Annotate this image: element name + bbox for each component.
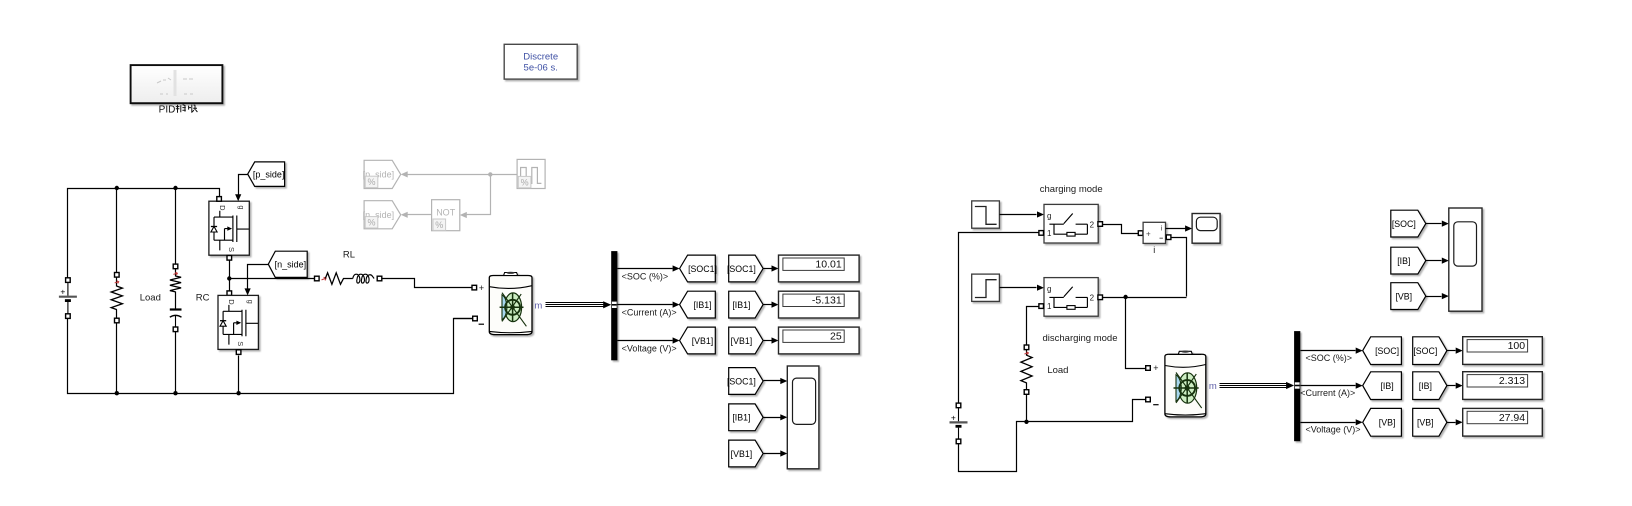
red current mark Load: [115, 281, 119, 284]
port: breaker2 input 1: [1039, 304, 1044, 309]
svg-text:[VB]: [VB]: [1417, 418, 1434, 428]
gray arrowhead into [p_side]: [401, 171, 408, 177]
resistor Load: [111, 286, 122, 310]
svg-text:[SOC]: [SOC]: [1392, 219, 1416, 229]
wire: from [VB] to scope2: [1426, 296, 1442, 298]
label m (battery2 output): [1209, 381, 1217, 392]
breaker block charging mode: [1044, 204, 1098, 243]
signal label &lt;Voltage (V)&gt; (right): [1306, 425, 1361, 435]
svg-text:NOT: NOT: [436, 208, 456, 218]
arrowhead into display: [772, 337, 779, 343]
svg-text:[p_side]: [p_side]: [253, 170, 285, 180]
port: V1 +: [66, 278, 71, 283]
junction ground node: [1024, 420, 1028, 424]
label i: [1153, 245, 1155, 255]
svg-text:D: D: [218, 205, 227, 211]
arrowhead into mosfet2 gate: [245, 288, 251, 295]
junction bottom / Load: [115, 391, 119, 395]
arrowhead into scope: [780, 450, 787, 456]
arrowhead into display (right): [1456, 383, 1463, 389]
red current mark Load2: [1024, 352, 1028, 355]
svg-text:2: 2: [1090, 294, 1095, 303]
port: Load bottom: [115, 318, 120, 323]
svg-text:%: %: [367, 218, 375, 228]
svg-text:27.94: 27.94: [1499, 412, 1525, 424]
subsystem block PID: [131, 65, 223, 103]
svg-text:[VB]: [VB]: [1379, 418, 1396, 428]
wire: step2 to breaker2 gate: [1000, 287, 1037, 289]
port: V1 -: [66, 314, 71, 319]
port: mosfet1 source: [227, 256, 232, 261]
wire: from [IB1] to scope: [764, 417, 781, 419]
arrowhead bus into selector 2: [1286, 382, 1294, 389]
port: battery2 +: [1146, 366, 1151, 371]
svg-text:25: 25: [830, 331, 842, 343]
svg-text:g: g: [1047, 211, 1051, 220]
svg-text:RL: RL: [343, 250, 355, 261]
wire: from [VB1] to display: [764, 340, 772, 342]
wire: from [SOC1] to scope: [764, 380, 781, 382]
svg-text:Load: Load: [140, 293, 161, 304]
wire: bottom rail: [68, 317, 478, 394]
label + (battery2): [1153, 363, 1158, 373]
arrowhead into breaker1 g: [1037, 211, 1044, 217]
label PID模块: [159, 105, 198, 116]
wire: mosfet1 source down to node: [229, 256, 231, 294]
label - (battery2): [1153, 404, 1158, 406]
scope block (right): [1449, 208, 1482, 311]
svg-text:[IB1]: [IB1]: [732, 413, 750, 423]
wire: bus selector2 output 2: [1301, 385, 1356, 387]
bus signal battery2 m to bus selector 2: [1220, 384, 1288, 388]
wire: V2- bottom path to ground node: [959, 422, 1025, 472]
from tag [SOC] (to display): [1413, 337, 1447, 365]
from tag [IB1] (to scope): [729, 404, 763, 431]
svg-text:+: +: [479, 283, 484, 293]
arrowhead bus into selector 1: [603, 301, 611, 308]
svg-text:Load: Load: [1047, 365, 1068, 376]
from tag [IB] (to display): [1413, 372, 1447, 400]
wire: current sensor - down to discharge node: [1171, 238, 1187, 297]
svg-text:100: 100: [1508, 340, 1526, 352]
wire: battery - to bottom rail: [454, 318, 473, 320]
svg-text:+: +: [60, 287, 65, 297]
gray arrowhead into NOT: [460, 212, 467, 218]
port: Load top: [115, 273, 120, 278]
bus signal battery1 m to bus selector: [546, 303, 605, 307]
DC voltage source V1: [59, 282, 77, 313]
DC voltage source V2: [950, 408, 968, 439]
wire: V2+ rail up to breaker1 input: [959, 233, 1039, 404]
gray NOT block (commented out): [432, 200, 460, 231]
battery block B2: [1165, 351, 1206, 417]
svg-text:m: m: [1209, 381, 1217, 392]
label discharging mode: [1043, 333, 1118, 344]
signal label &lt;SOC (%)&gt;: [622, 271, 669, 281]
svg-text:m: m: [534, 301, 542, 312]
svg-text:<Current (A)>: <Current (A)>: [1300, 388, 1355, 398]
wire: RC bottom to rail: [175, 332, 177, 394]
gray junction: [488, 172, 492, 176]
from tag [VB] (to scope2): [1391, 283, 1426, 310]
junction discharge node: [1123, 295, 1127, 299]
arrowhead into mosfet1 gate: [235, 194, 241, 201]
display 27.94: [1463, 408, 1543, 436]
display 10.01: [779, 255, 860, 282]
svg-text:<SOC (%)>: <SOC (%)>: [1306, 353, 1353, 363]
label m (battery1 output): [534, 301, 542, 312]
svg-text:%: %: [521, 177, 529, 187]
signal label &lt;SOC (%)&gt; (right): [1306, 353, 1353, 363]
from tag [p_side]: [248, 162, 285, 187]
wire: bus selector1 output 2: [618, 304, 673, 306]
svg-text:i: i: [1153, 245, 1155, 255]
wire: from [VB1] to scope: [764, 453, 781, 455]
wire: ground node to battery2 -: [1029, 400, 1146, 422]
arrowhead into display: [772, 265, 779, 271]
wire: mosfet2 source to rail: [238, 356, 240, 394]
display -5.131: [779, 291, 860, 318]
port: mosfet1 drain: [217, 197, 222, 202]
svg-text:[n_side]: [n_side]: [275, 260, 307, 270]
gray wire pulse to [p_side]: [408, 174, 518, 176]
wire: bus selector1 output 1: [618, 268, 673, 270]
port: battery1 +: [472, 285, 477, 290]
step block (discharge on): [972, 274, 1000, 301]
goto tag [VB1]: [680, 327, 716, 354]
svg-text:discharging mode: discharging mode: [1043, 333, 1118, 344]
from tag [IB1] (to display): [729, 291, 763, 318]
svg-text:%: %: [367, 177, 375, 187]
svg-text:<Voltage (V)>: <Voltage (V)>: [622, 343, 677, 353]
svg-text:charging mode: charging mode: [1040, 184, 1103, 195]
gray pulse generator block (commented out): [517, 159, 545, 188]
wire: Load bottom to rail: [116, 323, 118, 394]
display 2.313: [1463, 372, 1543, 400]
svg-text:2.313: 2.313: [1499, 375, 1525, 387]
port: V2 +: [956, 403, 961, 408]
arrowhead into display (right): [1456, 348, 1463, 354]
svg-text:+: +: [1153, 363, 1158, 373]
goto tag [SOC]: [1363, 337, 1402, 365]
svg-text:S: S: [236, 341, 245, 346]
svg-text:[IB]: [IB]: [1397, 256, 1410, 266]
label charging mode: [1040, 184, 1103, 195]
svg-text:g: g: [246, 300, 255, 304]
label RC: [196, 293, 210, 304]
MOSFET block 1 (p side): [209, 201, 249, 255]
port: Load2 bottom: [1024, 390, 1029, 395]
label RL: [343, 250, 355, 261]
from tag [VB] (to display): [1413, 408, 1447, 436]
arrowhead into goto [SOC1]: [673, 265, 680, 271]
port: RL input: [315, 276, 320, 281]
svg-text:g: g: [1047, 285, 1051, 294]
from tag [n_side]: [268, 251, 307, 277]
port: mosfet2 drain: [227, 291, 232, 296]
svg-text:+: +: [951, 412, 956, 422]
wire: from [IB1] to display: [764, 304, 772, 306]
battery block B1: [489, 272, 532, 335]
svg-text:<Voltage (V)>: <Voltage (V)>: [1306, 425, 1361, 435]
svg-text:+: +: [1146, 230, 1151, 239]
wire: Load2 bottom to ground node: [1026, 395, 1028, 422]
svg-text:10.01: 10.01: [815, 259, 841, 271]
svg-text:[VB]: [VB]: [1395, 292, 1412, 302]
wire: step1 to breaker1 gate: [1000, 214, 1037, 216]
scope block (current, small): [1192, 214, 1220, 244]
signal label &lt;Voltage (V)&gt;: [622, 343, 677, 353]
arrowhead into display (right): [1456, 419, 1463, 425]
svg-text:g: g: [237, 205, 246, 209]
inductor of RL: [353, 274, 374, 283]
port: battery2 -: [1146, 397, 1151, 402]
from tag [IB] (to scope2): [1391, 247, 1426, 274]
arrowhead into scope2: [1442, 221, 1449, 227]
junction bottom / mosfet2 source: [236, 391, 240, 395]
from tag [VB1] (to scope): [729, 440, 763, 467]
label +: [479, 283, 484, 293]
arrowhead into breaker2 g: [1037, 285, 1044, 291]
wire: from [SOC] to scope2: [1426, 223, 1442, 225]
wire: from [SOC1] to display: [764, 268, 772, 270]
wire: from [VB] to display: [1447, 422, 1456, 424]
svg-text:[SOC1]: [SOC1]: [727, 264, 756, 274]
current measurement block: [1143, 222, 1165, 243]
breaker block discharging mode: [1044, 278, 1098, 317]
svg-text:Discrete: Discrete: [523, 51, 558, 62]
arrowhead into goto [SOC]: [1356, 348, 1363, 354]
port: RC bottom: [173, 327, 178, 332]
wire: from [IB] to display: [1447, 385, 1456, 387]
svg-text:[VB1]: [VB1]: [692, 336, 714, 346]
arrowhead into scope2: [1442, 293, 1449, 299]
svg-text:[IB]: [IB]: [1380, 381, 1393, 391]
arrowhead into goto [IB]: [1356, 383, 1363, 389]
arrowhead into goto [VB]: [1356, 419, 1363, 425]
step block (charge off): [972, 201, 1000, 228]
from tag [VB1] (to display): [729, 327, 763, 354]
port: breaker2 output 2: [1098, 295, 1103, 300]
wire: from [SOC] to display: [1447, 350, 1456, 352]
bus selector 1 (black bar): [611, 251, 617, 360]
signal label &lt;Current (A)&gt; (right): [1300, 388, 1355, 398]
port: Load2 top: [1024, 345, 1029, 350]
wire: RL to battery +: [382, 279, 473, 288]
red current mark RC: [173, 272, 177, 275]
wire: breaker1 out to current sensor +: [1103, 225, 1139, 234]
from tag [SOC1] (to scope): [727, 368, 763, 395]
arrowhead into goto [VB1]: [673, 337, 680, 343]
svg-text:PID: PID: [159, 105, 176, 116]
port: battery1 -: [473, 316, 478, 321]
series RC branch: [170, 276, 181, 292]
port: current sensor +: [1138, 231, 1143, 236]
wire: from [IB] to scope2: [1426, 260, 1442, 262]
svg-text:D: D: [227, 299, 236, 305]
gray wire junction down to NOT: [467, 175, 491, 215]
junction top rail / Load: [115, 186, 119, 190]
goto tag [SOC1]: [680, 255, 717, 282]
svg-text:[SOC1]: [SOC1]: [688, 264, 717, 274]
label -: [479, 323, 484, 325]
arrowhead into small scope: [1185, 225, 1192, 231]
wire: top rail: [68, 189, 220, 281]
svg-text:[IB1]: [IB1]: [732, 300, 750, 310]
signal label &lt;Current (A)&gt;: [622, 307, 677, 317]
svg-text:1: 1: [1047, 229, 1052, 238]
gray goto tag [p_side] (commented out): [363, 160, 401, 188]
arrowhead into display: [772, 302, 779, 308]
wire: [n_side] to mosfet2 gate: [248, 265, 269, 289]
label Load (right): [1047, 365, 1068, 376]
svg-text:-5.131: -5.131: [812, 295, 842, 307]
block Discrete 5e-06 s.: [504, 44, 577, 79]
svg-text:[IB1]: [IB1]: [693, 300, 711, 310]
svg-text:[SOC]: [SOC]: [1413, 346, 1437, 356]
gray goto tag [n_side] (commented out): [363, 201, 401, 229]
svg-text:[VB1]: [VB1]: [731, 449, 753, 459]
label Load: [140, 293, 161, 304]
svg-text:[SOC1]: [SOC1]: [727, 376, 756, 386]
arrowhead into scope2: [1442, 258, 1449, 264]
wire: [p_side] to mosfet1 gate: [239, 175, 248, 195]
port: RL output: [377, 276, 382, 281]
port: current sensor - terminal: [1166, 235, 1171, 240]
goto tag [VB]: [1363, 408, 1402, 436]
from tag [SOC1] (to display): [727, 255, 763, 282]
wire: RC branch top: [175, 189, 177, 265]
arrowhead into goto [IB1]: [673, 302, 680, 308]
red current mark RL: [322, 277, 327, 280]
gray wire NOT to [n_side]: [408, 214, 432, 216]
svg-text:5e-06 s.: 5e-06 s.: [524, 62, 558, 73]
svg-text:RC: RC: [196, 293, 210, 304]
port: breaker1 output 2: [1098, 222, 1103, 227]
svg-text:<Current (A)>: <Current (A)>: [622, 307, 677, 317]
from tag [SOC] (to scope2): [1391, 210, 1426, 237]
wire: bus selector2 output 3: [1301, 422, 1356, 424]
wire: Load branch top: [116, 189, 118, 273]
svg-text:S: S: [227, 247, 236, 252]
gray arrowhead into [n_side]: [401, 212, 408, 218]
MOSFET block 2 (n side): [218, 295, 258, 349]
wire: bus selector1 output 3: [618, 340, 673, 342]
svg-text:[VB1]: [VB1]: [731, 336, 753, 346]
svg-text:%: %: [435, 220, 443, 230]
svg-text:[IB]: [IB]: [1419, 381, 1432, 391]
port: V2 -: [956, 439, 961, 444]
wire: node down to battery2 +: [1126, 297, 1146, 369]
wire: breaker2 out to node and battery +: [1103, 297, 1187, 298]
arrowhead into scope: [780, 414, 787, 420]
display 100: [1463, 337, 1543, 365]
junction bottom / RC: [173, 391, 177, 395]
port: breaker1 input 1: [1039, 231, 1044, 236]
goto tag [IB]: [1363, 372, 1402, 400]
svg-text:1: 1: [1047, 302, 1052, 311]
goto tag [IB1]: [680, 291, 716, 318]
wire: bus selector2 output 1: [1301, 350, 1356, 352]
junction top rail / RC: [173, 186, 177, 190]
svg-text:<SOC (%)>: <SOC (%)>: [622, 271, 669, 281]
scope block (left): [787, 366, 819, 469]
wire: breaker2 input1 to Load top: [1027, 307, 1039, 345]
port: mosfet2 source: [236, 350, 241, 355]
wire: current sensor i output to scope: [1166, 228, 1186, 230]
port: RC top: [173, 264, 178, 269]
display 25: [779, 327, 860, 354]
arrowhead into scope: [780, 378, 787, 384]
svg-text:2: 2: [1090, 220, 1095, 229]
junction node mosfet1-source / RL: [227, 276, 231, 280]
bus selector 2 (black bar): [1294, 331, 1300, 441]
resistor Load (right): [1021, 355, 1032, 383]
svg-text:[SOC]: [SOC]: [1375, 346, 1399, 356]
wire: node to RL input: [230, 278, 315, 280]
resistor of RL: [325, 273, 353, 285]
